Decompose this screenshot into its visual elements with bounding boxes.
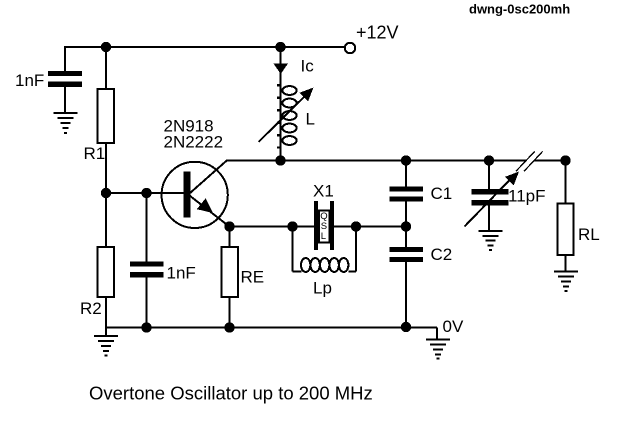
junction dot rail2 / 11pF xyxy=(484,155,494,165)
svg-text:C2: C2 xyxy=(431,245,453,264)
wire Lp bottom right stub xyxy=(349,271,357,273)
wire 11pF variable arrow line xyxy=(465,178,513,227)
wire R1 top stub xyxy=(105,47,107,89)
current Ic arrow xyxy=(274,64,289,75)
wire collector branch vertical (through L) xyxy=(280,47,282,161)
svg-text:Overtone Oscillator up to 200: Overtone Oscillator up to 200 MHz xyxy=(89,383,373,404)
wire base row xyxy=(106,192,184,194)
svg-text:+12V: +12V xyxy=(356,23,399,43)
crystal X1 body box xyxy=(319,211,330,243)
wire R1 bottom to base node xyxy=(105,143,107,193)
inductor L arrowhead xyxy=(300,88,314,102)
wire 1nF(2) bottom stub xyxy=(146,278,148,328)
junction dot bottom rail / 1nF xyxy=(141,322,151,332)
resistor R2 xyxy=(98,247,114,297)
wire RL top stub xyxy=(565,161,567,204)
wire emitter diagonal from transistor xyxy=(190,196,230,227)
svg-text:C1: C1 xyxy=(431,184,453,203)
wire R2 bottom to ground xyxy=(105,297,107,336)
wire C1 top stub xyxy=(405,161,407,187)
wire emitter row right segment xyxy=(334,226,406,228)
wire C1-C2 middle xyxy=(405,201,407,247)
transistor Q1 emitter arrowhead xyxy=(197,198,213,213)
inductor Lp loops xyxy=(301,258,348,272)
svg-text:R1: R1 xyxy=(84,144,106,163)
capacitor C1 xyxy=(390,187,424,202)
wire RL bottom stub xyxy=(565,255,567,272)
junction dot base / 1nF xyxy=(141,188,151,198)
wire C2 bottom stub xyxy=(405,262,407,328)
svg-text:0V: 0V xyxy=(443,317,464,336)
resistor RL xyxy=(557,204,573,256)
junction dot bottom rail / RE xyxy=(224,322,234,332)
ground (0V right end of rail) xyxy=(426,340,450,359)
wire Lp left vertical xyxy=(292,227,294,272)
ground (below RL) xyxy=(554,272,578,292)
wire capacitor C-bypass top stub xyxy=(64,46,66,71)
ground (below 11pF) xyxy=(479,231,503,250)
wire collector rail right of break xyxy=(535,160,566,162)
output break slash 2 xyxy=(524,151,543,171)
capacitor C2 xyxy=(390,247,424,262)
junction dot rail2 / RL xyxy=(560,155,570,165)
inductor L variable arrow line xyxy=(259,95,307,143)
svg-text:L: L xyxy=(321,231,326,242)
terminal +12V open circle xyxy=(345,43,355,53)
wire emitter row left segment xyxy=(230,226,315,228)
inductor L loops xyxy=(282,86,296,145)
capacitor 1nF (base bypass) xyxy=(130,262,164,278)
svg-text:1nF: 1nF xyxy=(15,71,44,90)
ground (below 1nF top-left) xyxy=(54,113,78,133)
wire bottom 0V rail xyxy=(106,327,438,329)
resistor R1 xyxy=(98,89,114,143)
svg-text:dwng-0sc200mh: dwng-0sc200mh xyxy=(469,1,570,16)
junction dot crystal right xyxy=(351,221,361,231)
resistor RE xyxy=(222,247,238,297)
junction dot crystal left xyxy=(287,221,297,231)
capacitor 1nF (top-left bypass) xyxy=(48,71,82,87)
junction dot top rail / L xyxy=(275,42,285,52)
capacitor 11pF arrowhead xyxy=(505,172,519,186)
junction dot top rail / R1 xyxy=(101,42,111,52)
junction dot rail2 / C1 xyxy=(401,155,411,165)
junction dot base / R1 R2 xyxy=(101,188,111,198)
svg-text:Lp: Lp xyxy=(313,279,332,298)
output break slash 1 xyxy=(516,152,535,172)
ground (bottom-left rail end) xyxy=(94,336,118,356)
wire collector diagonal from transistor xyxy=(190,161,227,194)
wire 0V ground stub xyxy=(436,328,438,340)
wire top supply rail xyxy=(65,46,345,48)
svg-text:Ic: Ic xyxy=(301,57,315,76)
svg-text:2N2222: 2N2222 xyxy=(164,133,224,152)
inductor L back-turn dashes xyxy=(277,84,280,149)
wire RE bottom stub xyxy=(229,297,231,328)
junction dot L / rail2 xyxy=(275,155,285,165)
junction dot C1 C2 mid xyxy=(401,221,411,231)
crystal X1 left plate xyxy=(314,201,318,250)
svg-text:11pF: 11pF xyxy=(508,187,546,206)
capacitor 11pF variable xyxy=(472,189,509,205)
wire Lp right vertical xyxy=(355,227,357,272)
transistor Q1 circle xyxy=(162,162,228,228)
wire RE top stub xyxy=(229,227,231,248)
wire R2 top stub xyxy=(105,193,107,247)
svg-text:L: L xyxy=(306,110,315,129)
svg-text:X1: X1 xyxy=(313,182,334,201)
wire 1nF to ground xyxy=(64,87,66,114)
junction dot emitter node xyxy=(224,221,234,231)
svg-text:RE: RE xyxy=(241,268,265,287)
transistor Q1 base bar xyxy=(183,172,190,218)
svg-text:RL: RL xyxy=(578,225,600,244)
wire Lp bottom left stub xyxy=(293,271,302,273)
junction dot bottom rail / C2 xyxy=(401,322,411,332)
wire 11pF top stub xyxy=(488,161,490,190)
svg-text:1nF: 1nF xyxy=(167,264,196,283)
svg-text:R2: R2 xyxy=(80,299,102,318)
wire 11pF to ground xyxy=(488,205,490,232)
wire 1nF(2) top stub xyxy=(146,193,148,262)
wire collector rail (second rail) xyxy=(226,160,526,162)
crystal X1 right plate xyxy=(330,201,334,250)
